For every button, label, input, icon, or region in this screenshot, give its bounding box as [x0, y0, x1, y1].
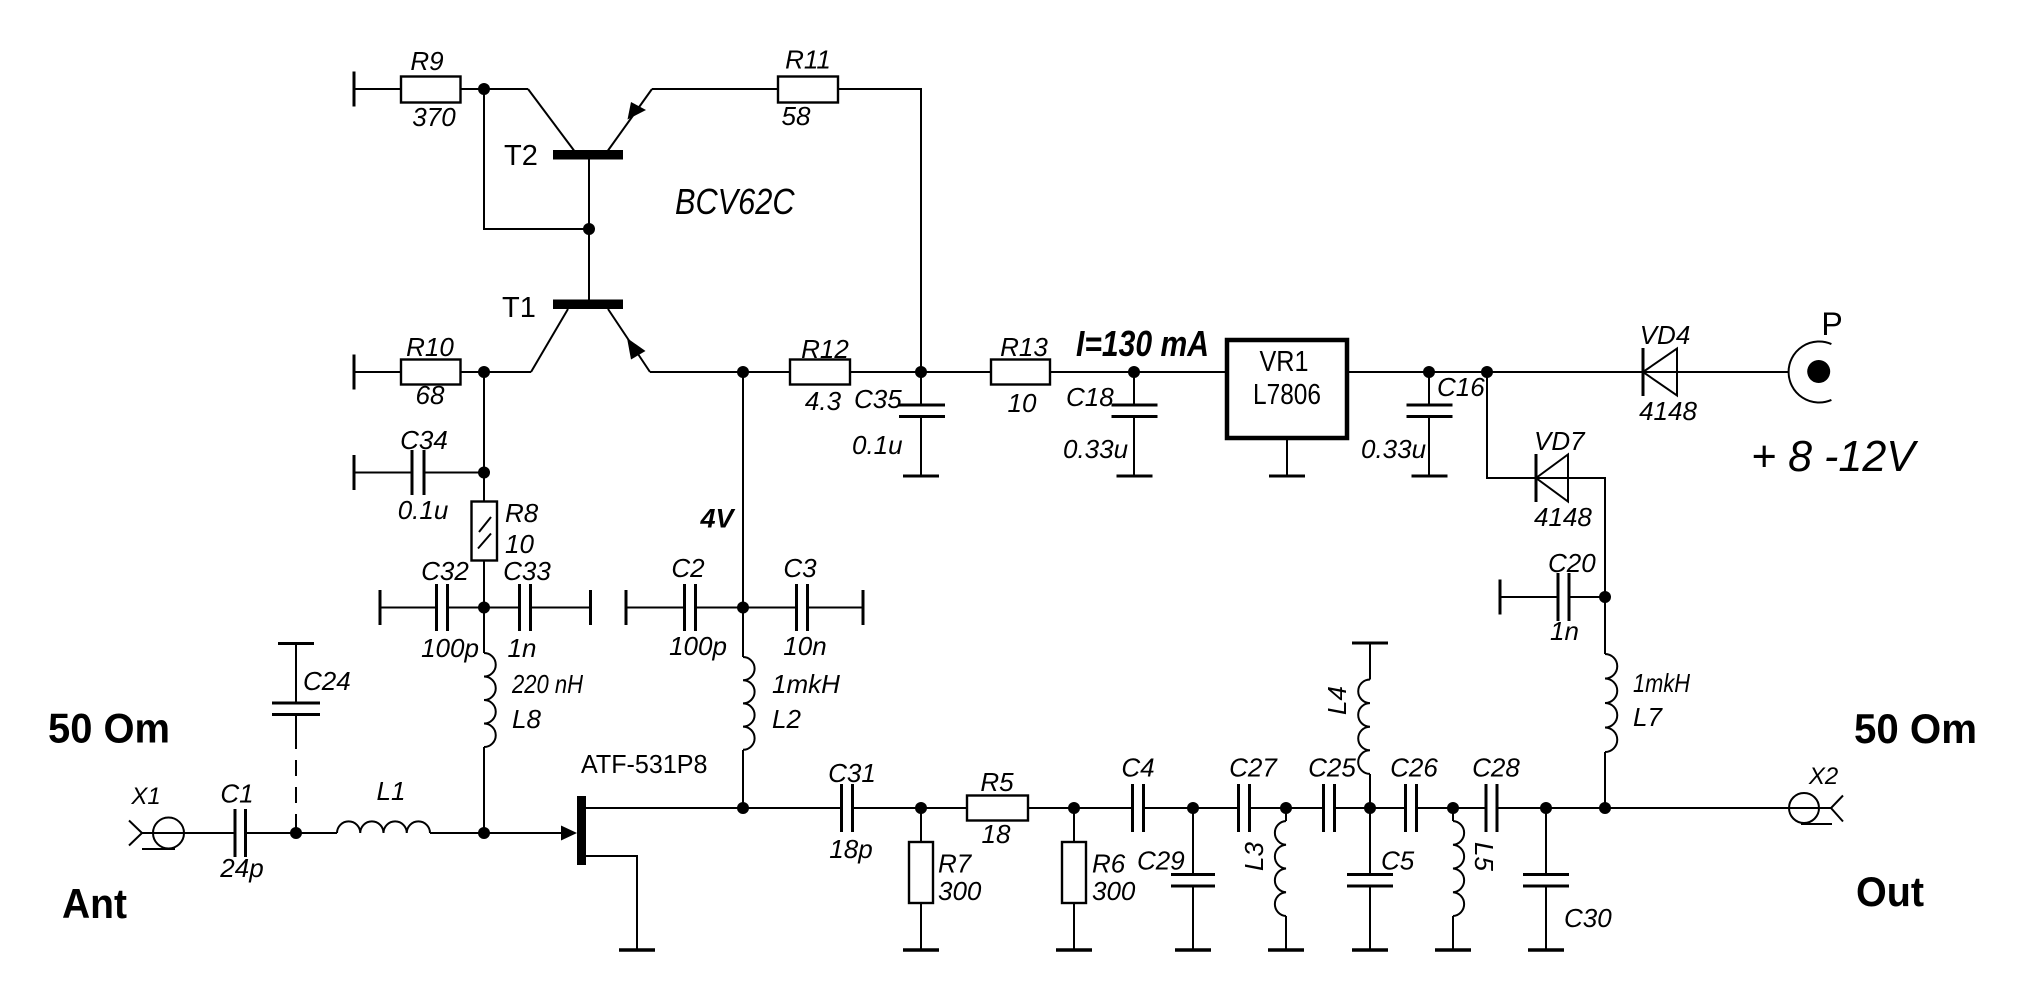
node L8/gate junction — [478, 827, 490, 839]
svg-text:R10: R10 — [406, 332, 454, 362]
wire ATF drain rail — [586, 807, 842, 809]
node C32/C33/R8/L8 junction — [478, 602, 490, 614]
wire C26 to C28 — [1417, 807, 1487, 809]
node L4/C5 junction — [1364, 802, 1376, 814]
svg-text:L2: L2 — [772, 704, 801, 734]
svg-text:VD7: VD7 — [1534, 426, 1586, 456]
svg-text:VR1: VR1 — [1260, 346, 1309, 378]
svg-text:C3: C3 — [783, 553, 817, 583]
svg-text:L4: L4 — [1322, 686, 1352, 715]
svg-text:0.33u: 0.33u — [1063, 434, 1128, 464]
resistor R7 300 — [903, 808, 982, 950]
wire C25 to C26 — [1335, 807, 1406, 809]
svg-text:C28: C28 — [1472, 753, 1520, 783]
wire ATF source to ground — [586, 856, 637, 950]
node C2/C3/L2 junction — [737, 602, 749, 614]
svg-text:300: 300 — [1092, 876, 1136, 906]
wire T2 emitter to R11 — [652, 88, 778, 90]
svg-text:C32: C32 — [421, 556, 469, 586]
svg-text:X2: X2 — [1808, 763, 1838, 790]
wire X1 to C1 — [142, 832, 235, 834]
svg-text:10: 10 — [1008, 388, 1037, 418]
inductor L8 220 nH — [484, 608, 583, 834]
svg-text:300: 300 — [938, 876, 982, 906]
connector X1 — [129, 783, 184, 849]
wire 4V rail down to C2/C3 node — [742, 372, 744, 608]
svg-text:I=130 mA: I=130 mA — [1076, 323, 1209, 364]
node R6 junction — [1068, 802, 1080, 814]
node C35 junction — [915, 366, 927, 378]
svg-text:C29: C29 — [1137, 846, 1185, 876]
wire C4 to C27 — [1144, 807, 1239, 809]
node 4V rail tap — [737, 366, 749, 378]
capacitor C27 — [1229, 753, 1278, 833]
svg-text:C25: C25 — [1308, 753, 1356, 783]
svg-text:C24: C24 — [303, 666, 351, 696]
regulator VR1 L7806 — [1227, 340, 1347, 476]
inductor L2 1mkH — [743, 608, 840, 809]
capacitor C33 — [484, 556, 591, 663]
resistor R10 — [354, 332, 461, 410]
svg-text:10: 10 — [505, 529, 534, 559]
node R10/T1/C34 junction — [478, 366, 490, 378]
wire R9 to T2 collector — [461, 88, 529, 90]
svg-text:C5: C5 — [1381, 846, 1415, 876]
svg-text:C33: C33 — [503, 556, 551, 586]
capacitor C2 — [626, 553, 743, 661]
svg-text:1mkH: 1mkH — [772, 669, 840, 699]
svg-text:C34: C34 — [400, 425, 448, 455]
connector P — [1789, 306, 1843, 402]
wire R10 to T1 collector — [461, 371, 532, 373]
capacitor C5 — [1347, 808, 1415, 950]
node C18 junction — [1128, 366, 1140, 378]
svg-text:T2: T2 — [504, 140, 538, 172]
inductor L7 1mkH — [1605, 597, 1690, 808]
svg-text:0.1u: 0.1u — [852, 430, 903, 460]
resistor R13 — [991, 332, 1050, 418]
svg-text:4.3: 4.3 — [805, 386, 842, 416]
svg-text:C2: C2 — [671, 553, 705, 583]
node drain/L2 junction — [737, 802, 749, 814]
svg-text:R5: R5 — [980, 767, 1014, 797]
svg-text:ATF-531P8: ATF-531P8 — [581, 749, 708, 779]
node L7 junction — [1599, 802, 1611, 814]
node C30 junction — [1540, 802, 1552, 814]
capacitor C30 — [1523, 808, 1612, 950]
wire junction to C34 node — [483, 372, 485, 473]
node C16 junction — [1423, 366, 1435, 378]
resistor R9 — [354, 46, 461, 132]
capacitor C16 — [1361, 372, 1485, 476]
inductor L3 — [1239, 808, 1304, 950]
wire C27 to C25 — [1250, 807, 1324, 809]
svg-text:1n: 1n — [1550, 616, 1579, 646]
svg-text:24p: 24p — [219, 853, 263, 883]
svg-text:Ant: Ant — [62, 880, 127, 927]
resistor R6 300 — [1056, 808, 1136, 950]
svg-text:4148: 4148 — [1639, 396, 1697, 426]
svg-text:18: 18 — [982, 819, 1011, 849]
inductor L4 — [1322, 643, 1388, 808]
svg-text:L7: L7 — [1633, 702, 1663, 732]
svg-text:C16: C16 — [1437, 372, 1485, 402]
svg-text:L7806: L7806 — [1253, 379, 1321, 411]
svg-text:10n: 10n — [783, 631, 826, 661]
wire C31 to R5 — [853, 807, 968, 809]
capacitor C4 — [1121, 753, 1154, 833]
svg-text:R9: R9 — [410, 46, 443, 76]
svg-text:P: P — [1821, 306, 1842, 342]
transistor T2 — [504, 89, 652, 229]
svg-text:L1: L1 — [377, 776, 406, 806]
svg-text:R7: R7 — [938, 849, 973, 879]
wire R11 right down to supply rail — [838, 89, 921, 372]
wire T1 emitter to R12 — [650, 371, 790, 373]
wire C28 to X2 — [1497, 807, 1831, 809]
resistor R12 — [790, 334, 850, 416]
svg-text:+ 8 -12V: + 8 -12V — [1751, 432, 1919, 481]
svg-text:BCV62C: BCV62C — [675, 181, 795, 222]
node R9/T2/base junction — [478, 83, 490, 95]
node C20/L7 junction — [1599, 591, 1611, 603]
node C34/R8 junction — [478, 467, 490, 479]
resistor R5 18 — [967, 767, 1028, 849]
svg-text:R13: R13 — [1000, 332, 1048, 362]
capacitor C29 — [1137, 808, 1215, 950]
inductor L5 — [1435, 808, 1499, 950]
svg-text:L5: L5 — [1469, 842, 1499, 871]
capacitor C26 — [1390, 753, 1438, 833]
svg-text:C26: C26 — [1390, 753, 1438, 783]
svg-text:R8: R8 — [505, 498, 539, 528]
node VD7 branch junction — [1481, 366, 1493, 378]
svg-text:4148: 4148 — [1534, 502, 1592, 532]
capacitor C1 — [219, 779, 337, 884]
resistor R8 — [472, 473, 539, 608]
svg-text:4V: 4V — [699, 504, 735, 534]
resistor R11 — [778, 45, 838, 132]
svg-text:58: 58 — [782, 101, 811, 131]
svg-text:0.33u: 0.33u — [1361, 434, 1426, 464]
svg-text:Out: Out — [1856, 868, 1924, 915]
capacitor C34 — [354, 425, 484, 525]
inductor L1 — [337, 776, 430, 833]
svg-text:370: 370 — [412, 102, 456, 132]
wire L1 to ATF gate — [430, 832, 561, 834]
svg-text:C20: C20 — [1548, 548, 1596, 578]
svg-text:50 Om: 50 Om — [48, 705, 170, 752]
svg-text:X1: X1 — [130, 783, 160, 810]
wire VD7 to C20 node — [1536, 478, 1605, 597]
svg-text:C31: C31 — [828, 758, 876, 788]
svg-text:100p: 100p — [669, 631, 727, 661]
capacitor C3 — [743, 553, 863, 661]
svg-text:68: 68 — [416, 380, 445, 410]
svg-text:1n: 1n — [508, 633, 537, 663]
capacitor C35 — [852, 372, 945, 476]
svg-text:18p: 18p — [829, 834, 872, 864]
wire VR1 to VD4 — [1347, 371, 1789, 373]
capacitor C20 — [1500, 548, 1605, 646]
capacitor C24 — [272, 644, 351, 831]
node L3 junction — [1280, 802, 1292, 814]
wire R5 to C4 — [1028, 807, 1133, 809]
svg-text:0.1u: 0.1u — [398, 495, 449, 525]
diode VD7 4148 — [1534, 426, 1592, 532]
svg-text:C18: C18 — [1066, 382, 1114, 412]
svg-text:R12: R12 — [801, 334, 849, 364]
svg-text:C1: C1 — [220, 779, 253, 809]
wire VD7 branch down and right — [1487, 372, 1536, 478]
svg-text:50 Om: 50 Om — [1854, 705, 1977, 752]
svg-text:VD4: VD4 — [1640, 320, 1691, 350]
capacitor C25 — [1308, 753, 1356, 833]
connector X2 — [1789, 763, 1843, 824]
capacitor C18 — [1063, 372, 1158, 476]
transistor T1 — [502, 229, 650, 372]
svg-text:C27: C27 — [1229, 753, 1278, 783]
wire R13 to VR1 — [1050, 371, 1227, 373]
node L5 junction — [1447, 802, 1459, 814]
node R7 junction — [915, 802, 927, 814]
svg-text:L8: L8 — [512, 704, 541, 734]
svg-text:R6: R6 — [1092, 849, 1126, 879]
svg-text:100p: 100p — [421, 633, 479, 663]
wire base feedback: junction down and right to base node — [484, 89, 589, 229]
svg-text:T1: T1 — [502, 292, 536, 324]
transistor ATF-531P8 — [561, 749, 708, 865]
svg-text:C4: C4 — [1121, 753, 1154, 783]
svg-text:L3: L3 — [1239, 842, 1269, 871]
svg-text:C35: C35 — [854, 384, 902, 414]
node C29 junction — [1187, 802, 1199, 814]
capacitor C32 — [380, 556, 484, 663]
ground ATF source — [619, 948, 655, 952]
svg-text:C30: C30 — [1564, 903, 1612, 933]
svg-text:R11: R11 — [785, 45, 831, 75]
node base of T1/T2 — [583, 223, 595, 235]
node C24 junction — [290, 827, 302, 839]
wire R12 to R13 — [850, 371, 991, 373]
svg-text:1mkH: 1mkH — [1633, 668, 1690, 698]
capacitor C28 — [1472, 753, 1520, 833]
svg-text:220 nH: 220 nH — [511, 669, 583, 699]
capacitor C31 — [828, 758, 876, 864]
diode VD4 4148 — [1639, 320, 1697, 426]
